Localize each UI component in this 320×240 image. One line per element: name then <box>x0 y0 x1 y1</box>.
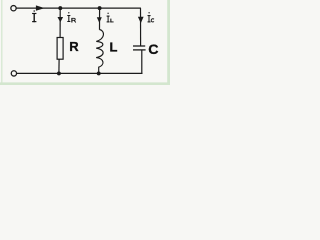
label current IC (dotted serif I + subscript c) <box>148 12 151 22</box>
wire branch C vertical bottom <box>141 50 143 73</box>
svg-text:C: C <box>148 42 158 58</box>
node junction top L <box>98 6 102 10</box>
svg-text:R: R <box>69 39 79 54</box>
node junction bottom R <box>57 71 61 75</box>
terminal bottom-left <box>11 71 16 76</box>
svg-text:L: L <box>110 39 118 54</box>
current arrow IC <box>138 17 144 23</box>
page border right <box>167 0 170 85</box>
label current IR (dotted serif I + subscript R) <box>67 12 70 22</box>
page border bottom <box>0 82 170 85</box>
capacitor C <box>133 46 146 50</box>
wire branch L top <box>99 8 101 30</box>
label current I (dotted serif I) <box>32 10 36 22</box>
node junction bottom L <box>97 71 101 75</box>
current arrow IR <box>58 17 64 22</box>
current arrow I <box>36 5 45 10</box>
wire bottom <box>17 72 143 74</box>
wire branch R top <box>59 8 61 37</box>
wire top <box>16 7 141 9</box>
label current IL (dotted serif I + subscript L) <box>107 13 110 23</box>
resistor R <box>57 38 63 60</box>
terminal top-left <box>11 6 16 11</box>
node junction top R <box>58 6 62 10</box>
inductor L <box>96 30 103 74</box>
page border left <box>1 0 2 85</box>
wire branch R bottom <box>58 59 60 73</box>
current arrow IL <box>97 17 102 23</box>
wire branch C vertical top <box>140 8 142 46</box>
